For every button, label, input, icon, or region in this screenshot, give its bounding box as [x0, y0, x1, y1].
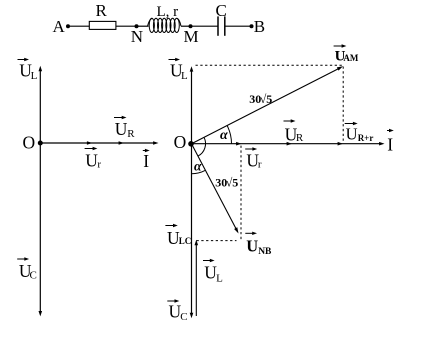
left diagram vertical axis UL up / UC down [39, 69, 41, 313]
right UR+r phasor arrowhead on axis [338, 142, 343, 146]
lower U_L vector label [203, 260, 212, 262]
node M junction dot [189, 24, 193, 28]
right Ur phasor arrowhead on axis [236, 142, 241, 146]
svg-text:O: O [23, 133, 36, 153]
svg-text:U: U [346, 125, 358, 144]
left Ur vector label [85, 148, 95, 150]
svg-text:r: r [97, 159, 101, 171]
left UR phasor arrowhead on axis [119, 141, 124, 145]
vector U_NB [192, 144, 238, 231]
dashed projection from UAM tip to vertical axis [196, 64, 344, 66]
svg-text:I: I [143, 151, 149, 171]
svg-text:U: U [246, 236, 258, 255]
right Ur vector label [245, 148, 254, 150]
svg-text:A: A [53, 17, 66, 36]
dashed projection from UAM tip to horizontal axis [342, 67, 344, 143]
wire resistor to node N [116, 25, 137, 27]
svg-text:O: O [174, 132, 187, 152]
left UL vector label [18, 59, 27, 61]
U_NB vector label [245, 232, 254, 234]
svg-text:M: M [184, 27, 199, 46]
inductor L,r coil [148, 18, 182, 32]
dashed projection from U_NB tip up to horizontal axis [240, 146, 242, 241]
small angle arc at O between U_AM and U_NB [198, 137, 206, 156]
wire inductor to node M [181, 25, 191, 27]
svg-text:B: B [254, 17, 265, 36]
right diagram horizontal axis toward I [192, 143, 382, 145]
svg-text:N: N [131, 27, 143, 46]
U_LC vector label [165, 225, 174, 227]
svg-text:√5: √5 [260, 92, 273, 106]
angle alpha arc below axis [192, 170, 206, 173]
U_AM vector label [334, 45, 344, 47]
svg-text:L: L [216, 273, 223, 285]
svg-text:C: C [216, 1, 227, 20]
left UC vector label [17, 258, 26, 260]
right UR vector label [284, 120, 293, 122]
UR+r vector label [345, 123, 355, 125]
capacitor C plates [217, 16, 219, 35]
svg-text:R+r: R+r [358, 133, 374, 143]
svg-text:C: C [180, 311, 187, 323]
svg-text:R: R [296, 132, 304, 144]
svg-text:L, r: L, r [157, 4, 179, 20]
svg-text:α: α [194, 158, 202, 173]
wire M to capacitor [191, 25, 218, 27]
right I vector label [387, 130, 391, 132]
node N junction dot [135, 24, 139, 28]
svg-text:R: R [127, 128, 135, 140]
left Ur phasor arrowhead on axis [87, 141, 92, 145]
resistor R [89, 21, 116, 29]
svg-text:√5: √5 [226, 175, 239, 189]
svg-text:R: R [96, 1, 108, 20]
U_L component vector along lower axis [195, 243, 197, 316]
dashed projection from U_NB tip to vertical axis [197, 240, 237, 242]
left I vector label [143, 150, 147, 152]
right diagram vertical axis [191, 69, 193, 315]
wire capacitor to node B [226, 25, 252, 27]
svg-text:L: L [181, 70, 188, 82]
svg-text:LC: LC [179, 236, 192, 246]
left UR vector label [114, 117, 124, 119]
right UL top vector label [169, 59, 178, 61]
wire N to inductor [137, 25, 149, 27]
svg-text:U: U [115, 119, 128, 139]
node B junction dot [250, 24, 254, 28]
left origin O dot [38, 141, 43, 146]
node A junction dot [66, 24, 70, 28]
svg-text:r: r [258, 159, 262, 171]
svg-text:L: L [31, 70, 38, 82]
svg-text:NB: NB [258, 247, 272, 257]
right UR phasor arrowhead on axis [287, 142, 292, 146]
svg-text:U: U [85, 151, 98, 171]
svg-text:I: I [387, 134, 393, 154]
svg-text:AM: AM [343, 53, 358, 63]
svg-text:C: C [30, 269, 37, 281]
svg-text:α: α [220, 128, 228, 143]
lower U_C vector label [167, 300, 176, 302]
left diagram horizontal axis toward I [40, 142, 156, 144]
wire A to resistor [70, 25, 89, 27]
vector U_AM [192, 68, 341, 144]
angle alpha arc above axis [227, 126, 231, 144]
right origin O dot [188, 141, 194, 147]
